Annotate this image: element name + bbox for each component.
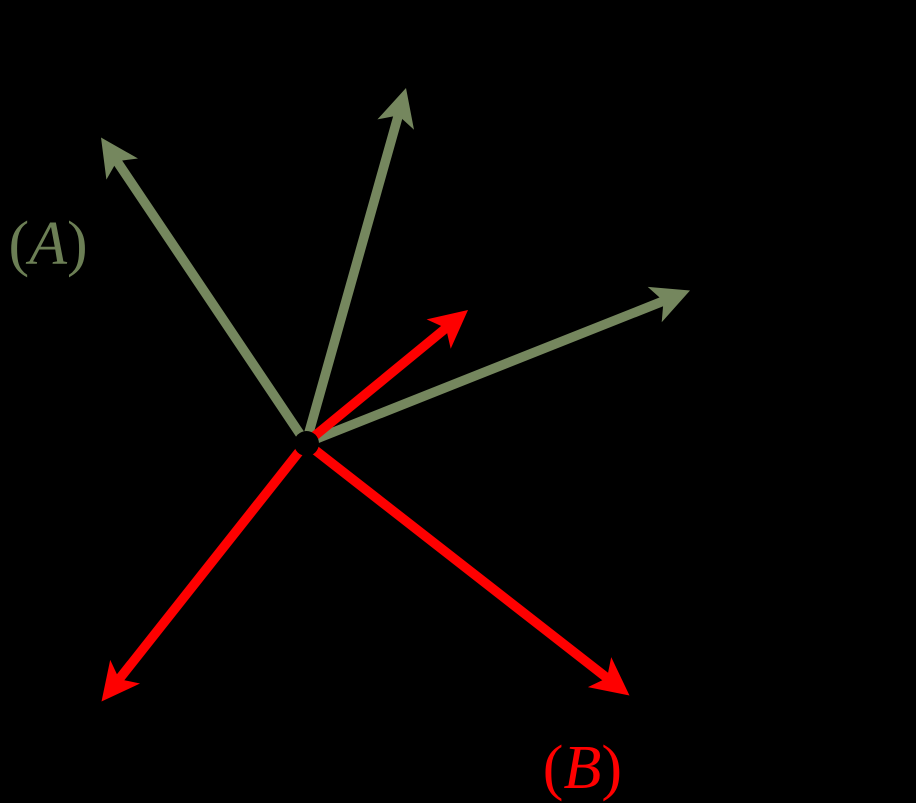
origin dot [294, 431, 319, 456]
vector arrow V5 (red, down-left) [102, 443, 307, 702]
svg-text:(B): (B) [543, 734, 622, 802]
vector arrow V1 (green, up-left) [101, 138, 306, 444]
vector arrow V6 (red, down-right) [306, 443, 630, 696]
svg-text:(A): (A) [9, 210, 88, 278]
vector arrow V2 (green, up) [306, 88, 414, 443]
vector arrow V4 (red, short up-right) [306, 310, 468, 443]
vector arrow V3 (green, right) [306, 287, 690, 443]
